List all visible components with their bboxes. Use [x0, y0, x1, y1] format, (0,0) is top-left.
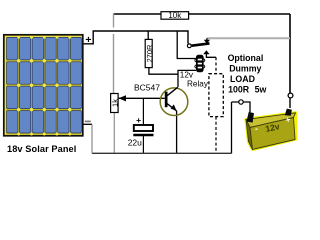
svg-text:BC547: BC547: [134, 83, 160, 93]
svg-text:270R: 270R: [145, 45, 154, 63]
svg-text:12v: 12v: [180, 71, 194, 80]
svg-text:10k: 10k: [168, 11, 182, 20]
svg-text:+: +: [136, 115, 141, 125]
svg-text:LOAD: LOAD: [230, 74, 255, 84]
svg-text:Relay: Relay: [187, 79, 209, 88]
svg-text:1k: 1k: [110, 99, 119, 107]
svg-text:Dummy: Dummy: [229, 63, 261, 73]
svg-text:22u: 22u: [128, 137, 142, 147]
svg-text:Optional: Optional: [228, 53, 264, 63]
svg-text:100R: 100R: [228, 84, 250, 94]
svg-text:5w: 5w: [255, 84, 267, 94]
svg-text:+: +: [85, 34, 91, 46]
svg-text:18v Solar Panel: 18v Solar Panel: [7, 144, 76, 154]
